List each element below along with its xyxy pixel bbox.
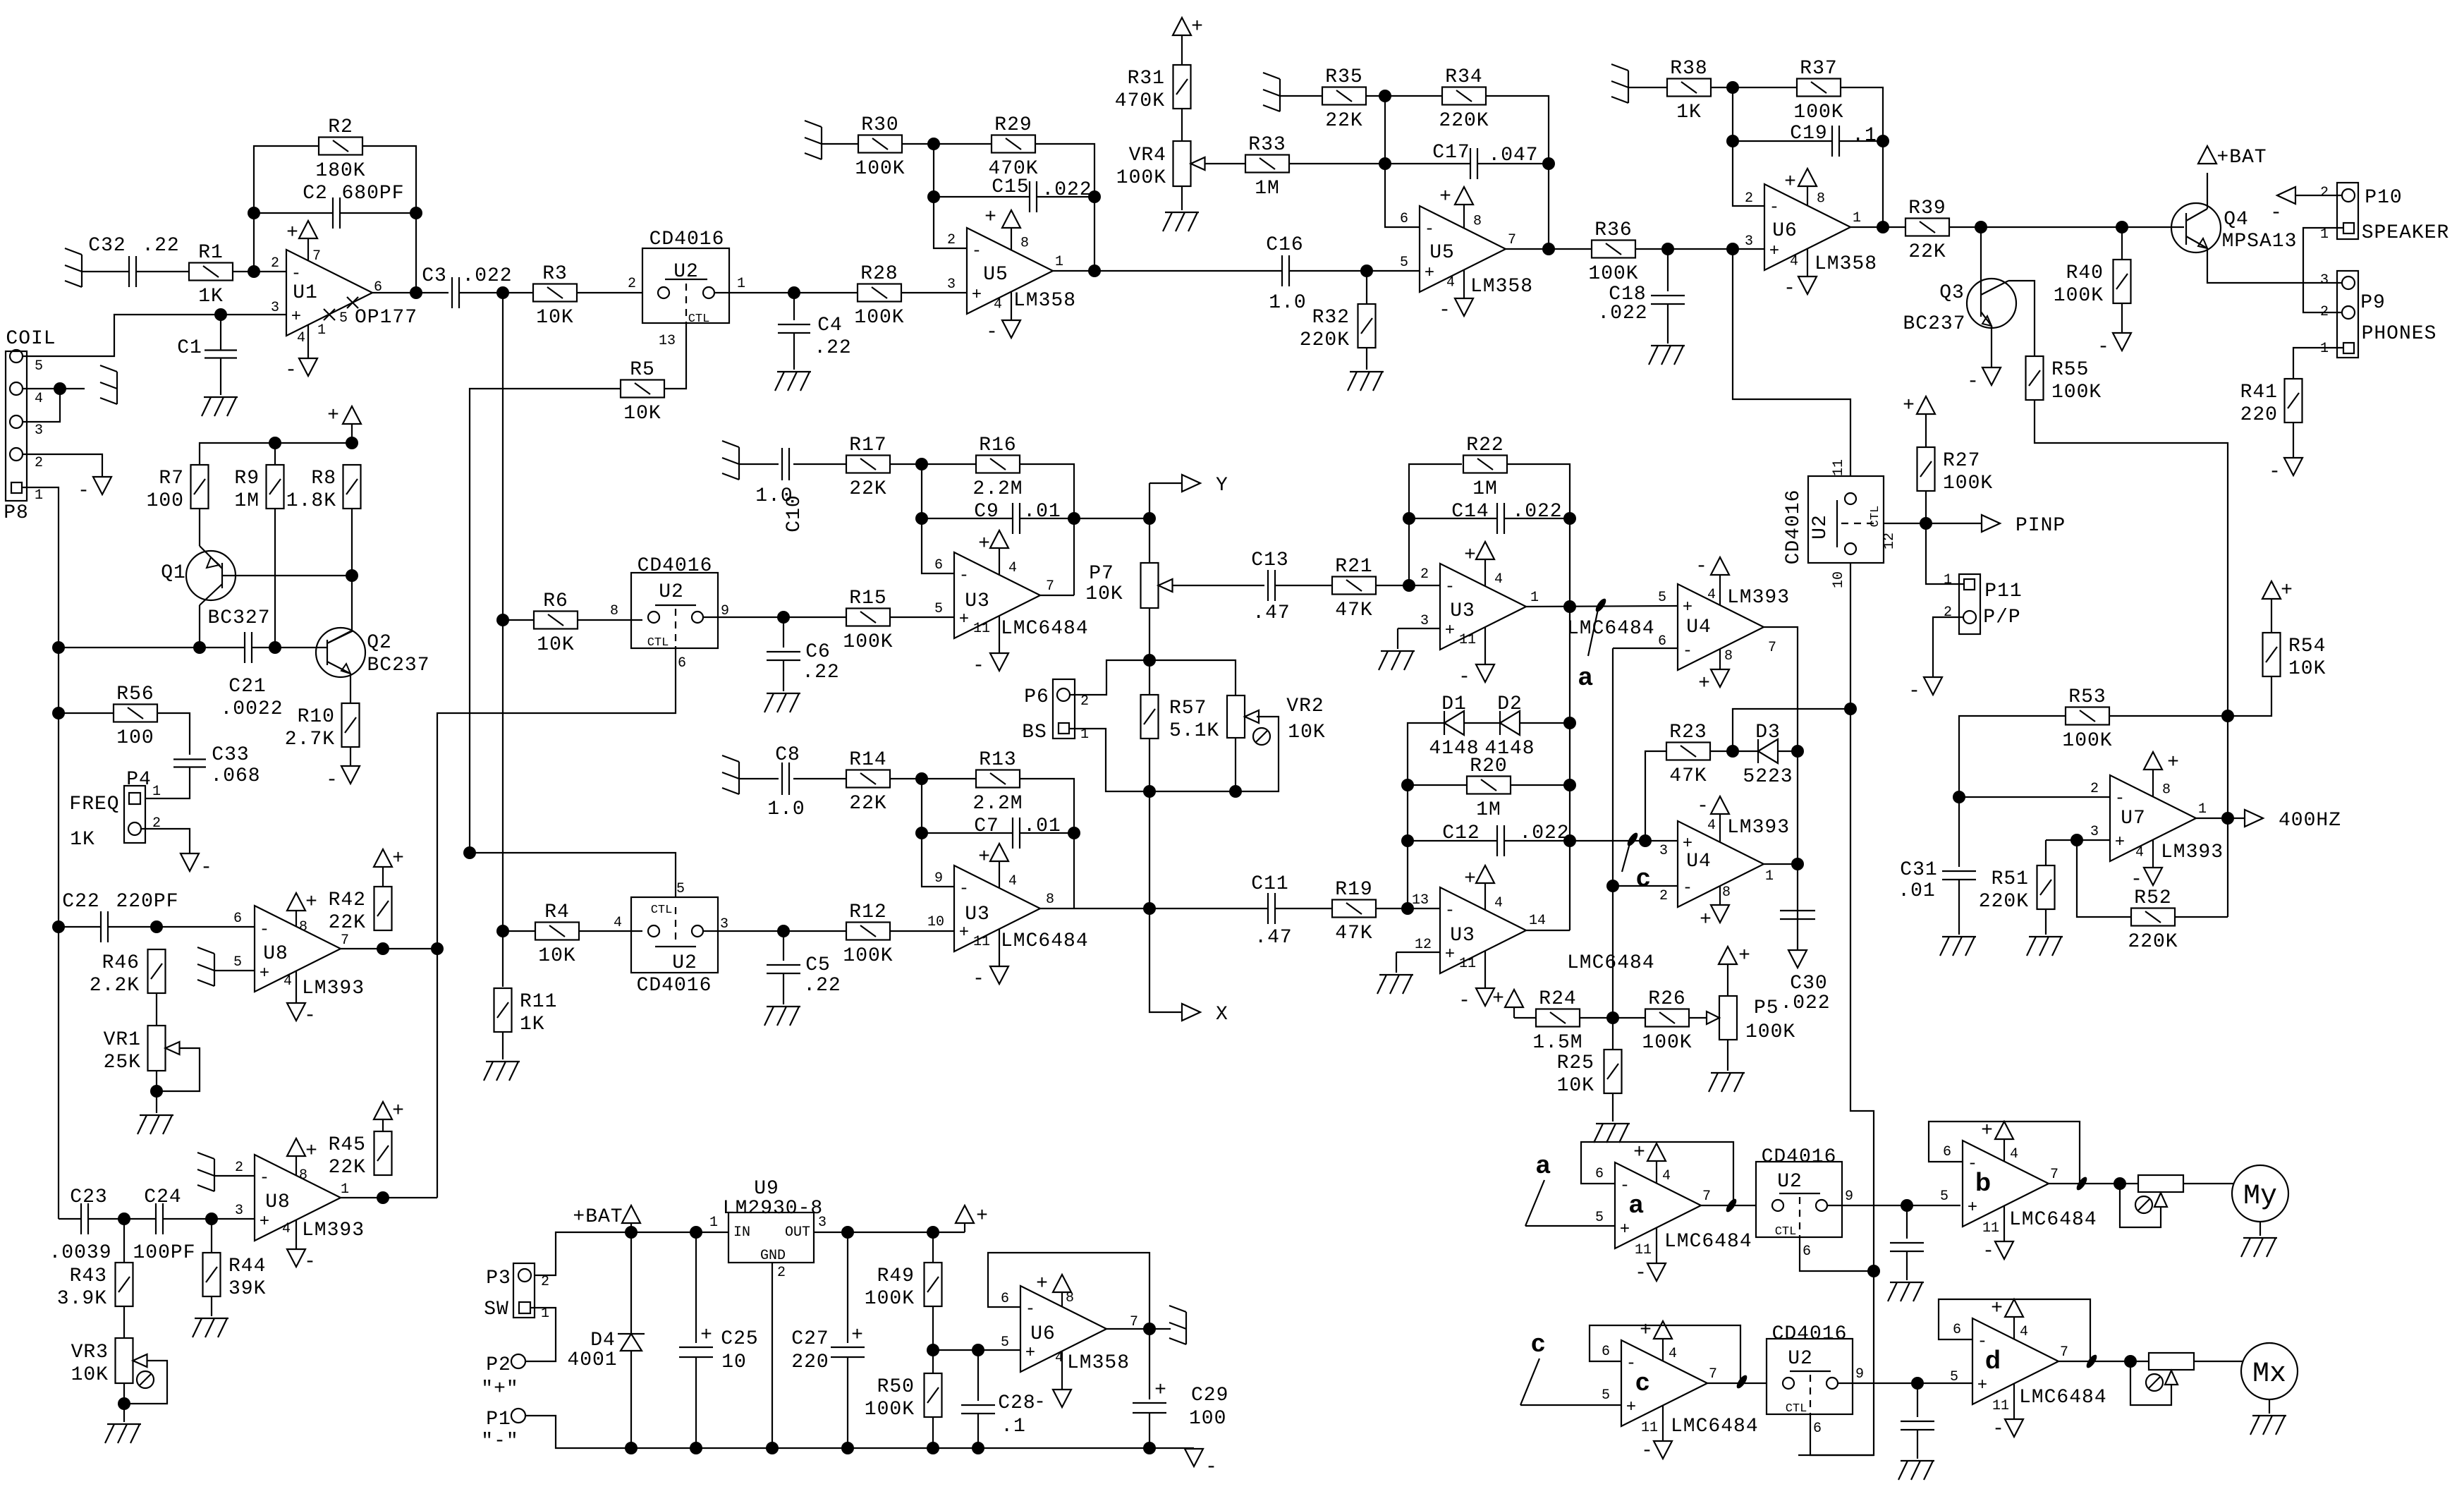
wire	[2121, 227, 2123, 260]
svg-text:.1: .1	[1001, 1416, 1026, 1438]
ground	[202, 397, 238, 416]
svg-text:3: 3	[1659, 843, 1668, 859]
wire	[252, 647, 327, 648]
svg-text:2: 2	[1420, 566, 1429, 583]
wire	[1289, 270, 1420, 272]
svg-text:100K: 100K	[855, 158, 905, 180]
svg-text:6: 6	[1803, 1244, 1811, 1260]
svg-text:VR4: VR4	[1129, 145, 1166, 166]
wire Q3 base	[1980, 227, 1982, 290]
wire a input	[1525, 1225, 1615, 1227]
svg-text:CTL: CTL	[647, 636, 669, 650]
svg-text:+: +	[1903, 395, 1915, 417]
svg-text:1.0: 1.0	[767, 798, 805, 820]
resistor R30	[855, 114, 905, 180]
wire	[211, 1219, 212, 1253]
node	[248, 207, 260, 219]
node	[150, 1085, 163, 1098]
wire U2f ctl	[1810, 1414, 1874, 1455]
svg-text:COIL: COIL	[6, 328, 56, 350]
svg-text:10: 10	[927, 914, 944, 930]
connector P10	[2320, 183, 2449, 244]
svg-text:100K: 100K	[1642, 1032, 1692, 1054]
potentiometer P5	[1719, 996, 1795, 1043]
svg-text:100K: 100K	[843, 631, 893, 653]
svg-text:+: +	[976, 1205, 989, 1227]
svg-text:3: 3	[947, 276, 956, 293]
svg-text:2: 2	[777, 1265, 786, 1281]
svg-text:C16: C16	[1266, 234, 1303, 256]
diode D1	[1429, 693, 1479, 760]
wire Q4 emitter	[2207, 248, 2342, 283]
wire	[220, 358, 221, 395]
svg-text:3: 3	[271, 300, 279, 316]
svg-text:4: 4	[297, 330, 305, 346]
ground	[138, 1115, 173, 1134]
svg-text:6: 6	[1953, 1322, 1961, 1338]
svg-text:-: -	[986, 322, 999, 344]
svg-text:CTL: CTL	[651, 904, 673, 917]
svg-text:+: +	[1769, 242, 1779, 261]
svg-text:-: -	[1982, 1241, 1995, 1263]
ground	[1379, 651, 1415, 670]
resistor R21	[1332, 556, 1376, 621]
svg-text:1: 1	[317, 322, 326, 339]
svg-text:LM358: LM358	[1067, 1352, 1130, 1374]
svg-text:11: 11	[973, 934, 990, 950]
svg-text:CD4016: CD4016	[1772, 1323, 1848, 1345]
wire	[1917, 1430, 1918, 1459]
node	[2221, 812, 2234, 825]
svg-text:+: +	[1154, 1380, 1167, 1402]
wire c input	[1520, 1404, 1621, 1406]
plus arrow	[1173, 16, 1204, 65]
svg-text:R17: R17	[849, 434, 886, 456]
capacitor C25	[679, 1347, 713, 1357]
svg-text:4: 4	[1707, 587, 1716, 603]
wire	[1040, 908, 1074, 909]
svg-text:U2: U2	[672, 952, 697, 974]
svg-text:D3: D3	[1755, 722, 1781, 743]
plus arrow +BAT	[2198, 146, 2267, 169]
svg-text:U2: U2	[673, 261, 699, 283]
svg-text:1: 1	[2320, 226, 2329, 243]
svg-text:1.5M: 1.5M	[1532, 1032, 1582, 1054]
svg-text:C17: C17	[1432, 142, 1470, 164]
wire top rail	[200, 443, 352, 464]
svg-text:100K: 100K	[1588, 263, 1638, 285]
wire	[1037, 196, 1094, 197]
wire column R24/R25	[1612, 648, 1614, 1018]
svg-text:2: 2	[2320, 185, 2329, 201]
svg-text:1: 1	[2320, 341, 2329, 357]
node	[1911, 1377, 1924, 1390]
capacitor C27	[831, 1347, 865, 1357]
wire switch pin10 column	[1798, 563, 1874, 1455]
svg-text:+: +	[1464, 868, 1477, 890]
svg-text:220PF: 220PF	[116, 891, 178, 913]
resistor R37	[1793, 58, 1843, 123]
svg-text:1: 1	[341, 1181, 349, 1198]
minus arrow	[2269, 458, 2303, 483]
svg-text:100K: 100K	[854, 307, 904, 329]
ground	[105, 1424, 141, 1443]
svg-text:2: 2	[947, 232, 956, 248]
node	[2114, 1177, 2126, 1190]
resistor R35	[1322, 66, 1366, 132]
svg-text:U3: U3	[1450, 600, 1475, 622]
trimmer pot My	[2135, 1175, 2183, 1213]
node	[690, 1442, 702, 1454]
wire	[254, 146, 319, 272]
svg-text:LMC6484: LMC6484	[1671, 1416, 1759, 1438]
svg-text:4: 4	[35, 391, 43, 407]
minus arrow	[1908, 677, 1942, 703]
capacitor C29	[1133, 1403, 1166, 1413]
wire	[1635, 248, 1764, 250]
svg-text:+: +	[851, 1325, 864, 1347]
svg-text:100K: 100K	[843, 945, 893, 967]
node	[1563, 717, 1576, 729]
svg-text:100PF: 100PF	[133, 1242, 195, 1264]
svg-text:7: 7	[312, 248, 321, 265]
svg-text:.47: .47	[1252, 602, 1290, 624]
svg-text:P10: P10	[2365, 187, 2402, 209]
svg-text:-: -	[1697, 796, 1709, 818]
svg-text:3: 3	[818, 1215, 827, 1231]
wire	[1385, 96, 1420, 227]
junction	[2075, 1175, 2089, 1191]
wire	[932, 1306, 934, 1373]
node	[1920, 517, 1932, 530]
wire	[1181, 109, 1183, 141]
svg-text:+: +	[1698, 673, 1711, 695]
wire	[578, 619, 642, 621]
wire Y tap	[1149, 482, 1182, 484]
op-amp U1	[271, 221, 417, 382]
svg-text:2.2M: 2.2M	[972, 793, 1023, 815]
svg-text:P8: P8	[4, 502, 29, 524]
node	[1143, 1323, 1156, 1335]
wire	[274, 443, 276, 464]
unused pin marks U1	[317, 297, 358, 339]
wire	[577, 292, 642, 293]
wire Q4 collector	[2207, 173, 2208, 209]
svg-text:6: 6	[1943, 1144, 1951, 1160]
svg-text:+: +	[700, 1325, 713, 1347]
svg-text:1.8K: 1.8K	[286, 490, 336, 512]
plus arrow	[374, 1100, 405, 1122]
svg-text:R44: R44	[228, 1256, 266, 1277]
ground	[1709, 1073, 1745, 1092]
wire U2d ctl	[1884, 523, 1926, 524]
node	[346, 569, 358, 582]
svg-text:+: +	[978, 846, 991, 868]
svg-text:R28: R28	[860, 263, 898, 285]
svg-text:220: 220	[791, 1351, 829, 1373]
svg-text:LMC6484: LMC6484	[1664, 1231, 1752, 1253]
svg-text:R8: R8	[311, 468, 336, 490]
svg-text:-: -	[260, 1169, 269, 1188]
wire	[2295, 195, 2342, 196]
wire VR1 wiper	[157, 1048, 200, 1091]
svg-text:CTL: CTL	[1786, 1402, 1807, 1416]
potentiometer VR2	[1227, 695, 1326, 745]
svg-text:R29: R29	[994, 114, 1032, 136]
wire	[1925, 491, 1927, 523]
node	[410, 207, 422, 219]
svg-text:+: +	[1464, 545, 1477, 566]
svg-text:4: 4	[1662, 1168, 1671, 1184]
ground	[722, 755, 739, 794]
wire	[1149, 660, 1150, 695]
wire	[890, 463, 976, 465]
minus arrow	[326, 766, 360, 791]
svg-text:2: 2	[35, 455, 43, 471]
capacitor C15	[1030, 181, 1037, 212]
svg-text:-: -	[1445, 901, 1455, 920]
resistor R12	[843, 901, 893, 967]
wire	[233, 271, 286, 272]
resistor R42	[329, 887, 392, 934]
wire	[932, 1417, 934, 1448]
svg-text:470K: 470K	[1115, 90, 1165, 112]
svg-text:11: 11	[1459, 956, 1476, 972]
svg-text:P9: P9	[2360, 292, 2386, 314]
node	[1791, 858, 1804, 870]
svg-text:VR1: VR1	[104, 1029, 141, 1051]
node	[205, 1213, 218, 1225]
svg-text:7: 7	[1709, 1366, 1717, 1382]
svg-text:C13: C13	[1251, 549, 1288, 571]
node	[269, 437, 281, 449]
minus arrow	[2097, 333, 2131, 358]
node	[431, 942, 444, 955]
svg-text:c: c	[1635, 1367, 1649, 1396]
node	[463, 846, 476, 859]
svg-text:R40: R40	[2066, 262, 2104, 284]
node	[1542, 157, 1555, 170]
node	[2221, 710, 2234, 722]
wire	[59, 712, 113, 714]
potentiometer VR4	[1116, 141, 1205, 189]
svg-text:C23: C23	[70, 1186, 107, 1208]
svg-text:11: 11	[1992, 1398, 2009, 1414]
wire	[890, 616, 954, 618]
svg-text:+: +	[260, 964, 269, 983]
svg-text:+BAT: +BAT	[2216, 147, 2267, 169]
wire	[1628, 87, 1667, 88]
svg-text:2: 2	[541, 1274, 549, 1290]
svg-text:P5: P5	[1754, 997, 1779, 1019]
svg-text:220K: 220K	[1439, 110, 1489, 132]
svg-text:LMC6484: LMC6484	[2009, 1209, 2097, 1231]
svg-text:R53: R53	[2068, 686, 2106, 708]
svg-text:13: 13	[1412, 892, 1429, 908]
svg-text:-: -	[1458, 667, 1471, 688]
wire P8.1	[22, 487, 59, 1219]
svg-text:5: 5	[35, 358, 43, 375]
wire U4a pin6	[1613, 648, 1678, 649]
svg-text:+: +	[1683, 598, 1693, 617]
resistor R2	[315, 116, 365, 182]
wire P6.1	[1069, 717, 1279, 791]
wire	[1827, 1205, 1960, 1206]
node	[915, 512, 928, 525]
resistor R24	[1532, 988, 1582, 1054]
wire U3d pin12	[1396, 952, 1440, 953]
wire	[1667, 249, 1669, 291]
junction	[2085, 1353, 2099, 1369]
resistor R56	[114, 683, 157, 749]
svg-text:10K: 10K	[1288, 722, 1325, 743]
resistor R51	[1979, 865, 2055, 913]
svg-text:2: 2	[1080, 693, 1089, 710]
wire P9.1	[2293, 348, 2343, 379]
resistor R46	[90, 949, 166, 997]
svg-text:R19: R19	[1335, 879, 1372, 901]
svg-text:C22: C22	[62, 891, 99, 913]
resistor R1	[189, 242, 233, 308]
resistor R34	[1439, 66, 1489, 132]
node	[1068, 512, 1080, 525]
wire P4.2	[141, 829, 190, 853]
wire	[1235, 738, 1236, 791]
wire	[211, 1296, 212, 1316]
connector P6	[1022, 679, 1089, 743]
node	[118, 1213, 130, 1225]
node	[1726, 135, 1739, 147]
svg-text:+: +	[1492, 988, 1505, 1010]
junction	[1724, 1197, 1738, 1213]
arrow PINP	[1982, 515, 2066, 537]
wire	[341, 1197, 437, 1198]
svg-text:C24: C24	[144, 1186, 181, 1208]
svg-text:LM393: LM393	[302, 1220, 365, 1241]
ground	[805, 121, 822, 159]
wire	[2035, 400, 2228, 716]
diode D2	[1484, 693, 1535, 760]
junction	[1735, 1373, 1749, 1390]
wire	[1958, 880, 1960, 935]
svg-text:4001: 4001	[567, 1349, 617, 1371]
svg-text:6: 6	[1813, 1421, 1822, 1437]
svg-text:8: 8	[1722, 885, 1731, 901]
svg-text:.01: .01	[1023, 501, 1061, 523]
svg-text:+: +	[286, 222, 299, 244]
node	[52, 641, 65, 654]
svg-text:4: 4	[1446, 275, 1455, 291]
wire	[327, 509, 352, 643]
svg-text:11: 11	[973, 621, 990, 637]
wire	[2049, 1183, 2138, 1184]
wire	[847, 1357, 848, 1448]
svg-text:C5: C5	[805, 954, 831, 976]
wire a feedback	[1581, 1142, 1733, 1205]
svg-text:+: +	[1991, 1298, 2003, 1320]
wire	[470, 389, 676, 897]
wire column	[1149, 791, 1150, 908]
node	[972, 1442, 984, 1454]
capacitor C16	[1282, 255, 1289, 286]
svg-text:My: My	[2243, 1181, 2277, 1213]
wire	[739, 463, 779, 465]
svg-text:1: 1	[1530, 590, 1539, 606]
wire	[1520, 722, 1570, 724]
wire	[714, 292, 794, 293]
svg-text:+: +	[327, 405, 340, 427]
svg-text:11: 11	[1982, 1220, 1999, 1236]
wire column	[2227, 716, 2228, 917]
svg-text:IN: IN	[733, 1224, 750, 1241]
svg-text:3: 3	[1420, 613, 1429, 629]
resistor R17	[846, 434, 890, 500]
resistor R13	[972, 749, 1023, 815]
plus arrow	[1903, 395, 1935, 417]
wire	[156, 1071, 157, 1113]
wire	[1838, 1382, 1972, 1384]
wire	[1409, 518, 1497, 519]
svg-text:R27: R27	[1943, 450, 1980, 472]
node	[1844, 703, 1857, 715]
node	[1606, 880, 1619, 892]
ground	[193, 1318, 228, 1337]
svg-text:+: +	[305, 1141, 318, 1162]
wire U3b pin3	[1398, 628, 1440, 629]
svg-text:P2: P2	[486, 1354, 511, 1376]
svg-text:R39: R39	[1908, 197, 1946, 219]
motor My	[2232, 1165, 2288, 1222]
svg-text:R4: R4	[544, 901, 570, 923]
svg-text:6: 6	[1658, 633, 1666, 650]
wire	[1580, 1017, 1645, 1019]
capacitor	[1890, 1243, 1924, 1251]
node	[150, 920, 163, 933]
svg-text:SW: SW	[484, 1299, 509, 1320]
svg-text:P4: P4	[126, 769, 152, 791]
wire	[59, 926, 101, 928]
arrow wiper P5	[1707, 1011, 1719, 1024]
svg-text:.022: .022	[1597, 303, 1647, 324]
resistor R39	[1905, 197, 1949, 263]
wire	[922, 832, 1013, 834]
node	[1563, 600, 1576, 613]
svg-text:3: 3	[2090, 824, 2099, 840]
node	[2116, 221, 2128, 233]
ground	[1348, 372, 1384, 391]
ground	[197, 947, 214, 986]
svg-text:+: +	[1633, 1142, 1646, 1164]
node	[1379, 90, 1391, 102]
node	[690, 1226, 702, 1239]
svg-text:-: -	[1034, 1392, 1047, 1414]
wire	[2194, 1361, 2243, 1362]
svg-text:3.9K: 3.9K	[57, 1288, 107, 1310]
svg-text:R32: R32	[1312, 307, 1350, 329]
ground	[1940, 937, 1976, 956]
transistor Q1	[161, 546, 270, 629]
svg-text:R22: R22	[1466, 434, 1504, 456]
svg-text:.0022: .0022	[220, 698, 283, 720]
svg-text:-: -	[972, 968, 985, 990]
svg-text:+: +	[1700, 909, 1712, 931]
svg-text:-: -	[2097, 336, 2110, 358]
svg-text:8: 8	[1046, 892, 1054, 908]
wire	[1376, 585, 1440, 586]
resistor R26	[1642, 988, 1692, 1054]
svg-text:U8: U8	[263, 943, 288, 965]
resistor R40	[2054, 260, 2131, 307]
